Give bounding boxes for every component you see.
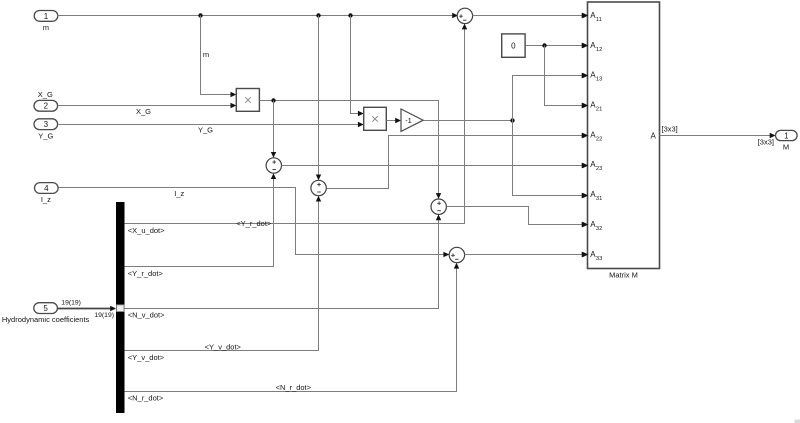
svg-text:I_z: I_z [174,189,184,198]
wire I_z from inport 4 to sum U5 left input [59,188,450,258]
inport 2 (X_G) [34,100,58,111]
wire sum U5 output to Matrix M port A33 [465,252,588,257]
svg-text:<X_u_dot>: <X_u_dot> [128,226,165,235]
Matrix M port A33 [583,250,603,262]
Matrix M port A11 [583,11,602,23]
Matrix M port A12 [583,41,603,53]
subsystem Matrix M [588,2,660,269]
svg-text:<N_r_dot>: <N_r_dot> [128,394,164,403]
junction on m wire at x=350 [348,13,352,17]
wire P2 output to gain G1 [387,118,402,123]
svg-text:Hydrodynamic coefficients: Hydrodynamic coefficients [2,315,90,324]
wire constant 0 to Matrix M port A12 [526,43,588,48]
svg-text:<N_r_dot>: <N_r_dot> [276,383,312,392]
svg-text:I_z: I_z [41,195,51,204]
outport 1 (M) [776,130,798,140]
wire bus out 3 N_v_dot up to sum U4 bottom [125,214,442,308]
Matrix M port A13 [583,71,603,83]
svg-text:22: 22 [596,136,602,142]
wire m branch to product P1 input 1 [201,16,237,98]
product P2 (m*Y_G) [364,107,387,130]
junction on m wire at x=318 [316,13,320,17]
inport 5 (Hydrodynamic coefficients) [34,303,58,314]
wire sum U4 output to Matrix M port A32 [447,207,588,228]
wire bus out 5 N_r_dot up to sum U5 bottom [125,263,460,392]
wire gain G1 output to junction [424,120,513,122]
svg-text:<Y_r_dot>: <Y_r_dot> [236,219,272,228]
Matrix M port A23 [583,160,603,172]
constant C1 (0) [502,34,525,57]
svg-text:13: 13 [596,77,602,83]
inport 4 (I_z) [35,183,59,194]
svg-text:3: 3 [44,120,49,129]
svg-text:4: 4 [44,184,49,193]
wire gain output up to Matrix M port A13 [513,73,588,121]
svg-text:[3x3]: [3x3] [758,137,774,146]
wire P1 output branch down to sum U2 top [271,101,276,158]
sum U5 (I_z - N_r_dot) [449,247,464,262]
svg-text:-1: -1 [405,116,412,125]
svg-text:m: m [203,50,209,59]
svg-text:32: 32 [596,226,602,232]
product P1 (m*X_G) [236,89,259,112]
inport 1 (m) [34,11,58,22]
wire bus out 1 X_u_dot up to sum U1 bottom [125,24,468,224]
svg-text:A: A [651,132,657,141]
svg-text:X_G: X_G [136,107,151,116]
junction on constant output [542,43,546,47]
svg-text:Y_G: Y_G [198,125,213,134]
wire m branch to product P2 input 1 [351,16,364,117]
junction on gain output [510,118,514,122]
wire sum U3 output to Matrix M port A22 [327,133,588,189]
sum U2 (m*X_G - Y_r_dot) [266,158,281,173]
Matrix M port A32 [583,220,603,232]
svg-text:33: 33 [596,256,602,262]
svg-text:0: 0 [511,42,516,51]
svg-text:19(19): 19(19) [61,299,81,306]
svg-text:1: 1 [44,12,49,21]
wire m branch down to sum U3 top [316,16,321,181]
svg-text:<Y_v_dot>: <Y_v_dot> [128,353,165,362]
gain G1 (-1) [401,109,423,131]
svg-text:1: 1 [784,131,789,140]
sum U4 (m*X_G - N_v_dot) [431,199,446,214]
svg-text:31: 31 [596,196,602,202]
svg-text:11: 11 [596,17,602,23]
svg-text:21: 21 [596,107,602,113]
inport 3 (Y_G) [34,119,58,130]
svg-text:M: M [783,142,789,151]
svg-text:12: 12 [596,47,602,53]
svg-text:Y_G: Y_G [38,131,53,140]
wire Matrix M output A to outport 1 [660,133,776,138]
svg-text:Matrix M: Matrix M [609,271,638,280]
svg-text:5: 5 [43,304,48,313]
svg-text:<Y_v_dot>: <Y_v_dot> [205,342,242,351]
svg-text:19(19): 19(19) [94,312,114,319]
wire bus out 2 Y_r_dot up to sum U2 bottom [125,173,277,266]
Matrix M port A31 [583,190,603,202]
wire constant 0 branch to Matrix M port A21 [545,46,588,109]
sum U1 (m - X_u_dot) [457,8,472,23]
svg-text:2: 2 [44,102,49,111]
wire m from inport 1 to sum U1 [58,13,459,18]
Matrix M port A21 [583,101,603,113]
wire product P1 output to sum U4 top [260,101,442,199]
wire bus out 4 Y_v_dot up to sum U3 bottom [125,196,322,351]
wire Y_G from inport 3 to product P2 input 2 [59,122,364,127]
svg-text:<Y_r_dot>: <Y_r_dot> [128,269,164,278]
svg-text:X_G: X_G [38,90,53,99]
svg-text:[3x3]: [3x3] [662,124,678,133]
junction on P1 output [271,98,275,102]
wire gain output down to Matrix M port A31 [513,121,588,199]
svg-text:<N_v_dot>: <N_v_dot> [128,311,165,320]
bus selector B1 [116,202,125,413]
wire sum U1 output to Matrix M port A11 [473,13,588,18]
sum U3 (m - Y_v_dot) [311,180,326,195]
svg-text:m: m [43,23,49,32]
wire sum U2 output to Matrix M port A23 [282,163,588,168]
wire bus from inport 5 to bus selector [58,306,117,311]
wire X_G from inport 2 to product P1 input 2 [59,103,237,108]
junction on m wire at x=201 [198,13,202,17]
Matrix M port A22 [583,130,603,142]
scrollbar corner [795,420,800,423]
svg-text:23: 23 [596,166,602,172]
